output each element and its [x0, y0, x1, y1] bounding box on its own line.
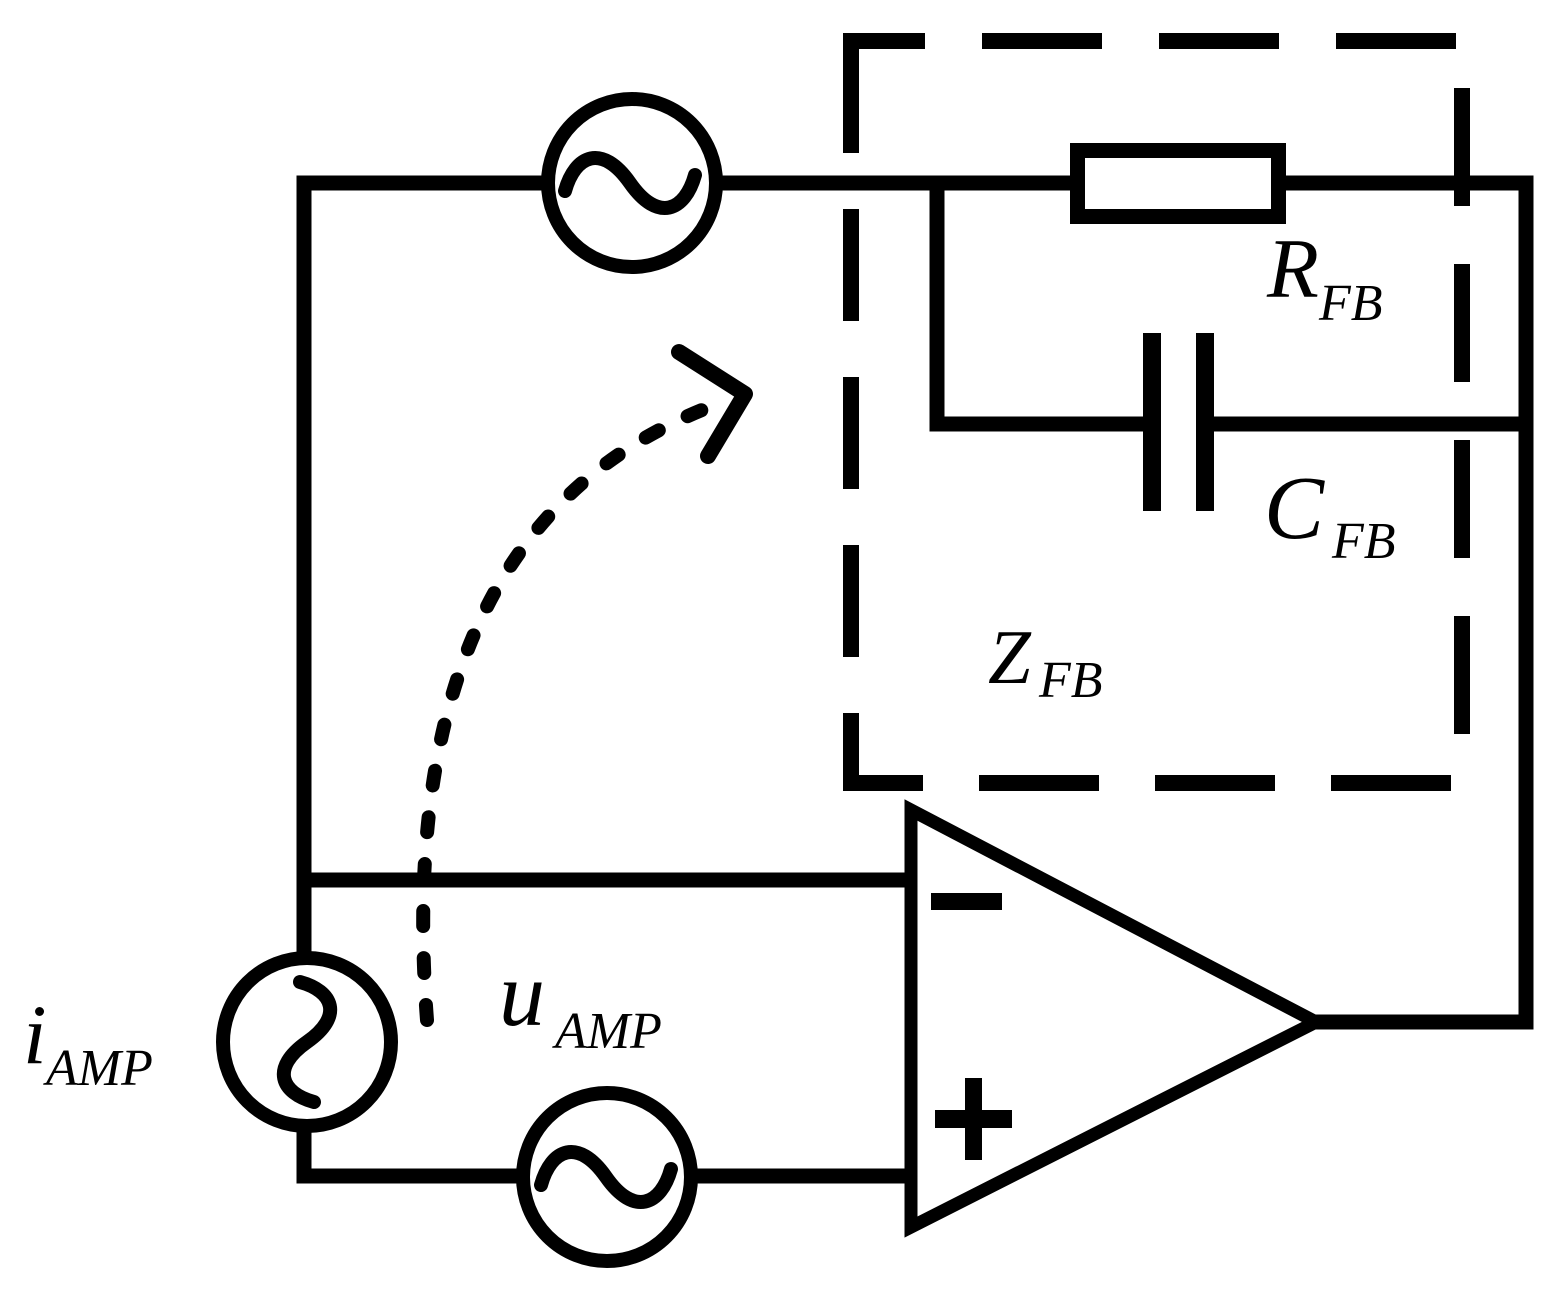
- svg-text:C: C: [1264, 459, 1325, 558]
- svg-text:FB: FB: [1038, 652, 1103, 709]
- svg-text:u: u: [499, 943, 545, 1045]
- svg-text:R: R: [1266, 222, 1319, 316]
- svg-text:FB: FB: [1318, 275, 1383, 332]
- svg-text:Z: Z: [988, 614, 1032, 700]
- svg-text:i: i: [23, 988, 47, 1082]
- svg-text:AMP: AMP: [43, 1040, 153, 1097]
- svg-text:FB: FB: [1331, 513, 1396, 570]
- svg-text:AMP: AMP: [552, 1003, 662, 1060]
